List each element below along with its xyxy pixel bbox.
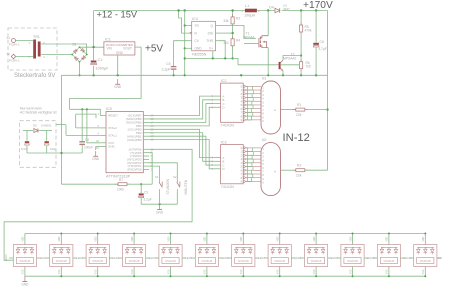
svg-text:WS2812B: WS2812B [238, 260, 249, 263]
svg-text:GND: GND [108, 145, 116, 149]
svg-text:R1: R1 [297, 103, 301, 107]
svg-text:VDD: VDD [241, 236, 243, 241]
svg-text:100k: 100k [117, 188, 124, 192]
svg-text:(RXD)PD0: (RXD)PD0 [127, 168, 141, 172]
svg-text:(AIN0)PB0: (AIN0)PB0 [127, 138, 142, 142]
svg-text:XTAL2: XTAL2 [108, 126, 117, 130]
svg-text:IC2: IC2 [221, 79, 227, 83]
svg-text:DIS: DIS [208, 32, 213, 36]
svg-text:100µ: 100µ [50, 147, 57, 151]
svg-text:VSS: VSS [23, 269, 25, 274]
svg-text:GND: GND [195, 47, 203, 51]
svg-text:VSS: VSS [132, 269, 134, 274]
svg-text:LEDS: LEDS [4, 254, 8, 261]
svg-text:VDD: VDD [59, 236, 61, 241]
svg-text:S2: S2 [173, 175, 177, 179]
svg-text:VSS: VSS [423, 269, 425, 274]
svg-text:VDD: VDD [205, 236, 207, 241]
svg-text:D5: D5 [33, 124, 37, 128]
svg-text:33k: 33k [223, 19, 229, 23]
svg-text:R2: R2 [297, 163, 301, 167]
svg-text:74141N: 74141N [221, 185, 235, 189]
svg-text:VDD: VDD [387, 236, 389, 241]
svg-text:100µH: 100µH [244, 14, 256, 18]
svg-text:WS2812B: WS2812B [20, 260, 31, 263]
svg-text:PCBV-1: PCBV-1 [9, 43, 20, 47]
svg-text:VSS: VSS [387, 269, 389, 274]
svg-text:DO: DO [438, 256, 442, 260]
svg-text:C5: C5 [166, 62, 170, 66]
svg-text:IC1: IC1 [105, 38, 111, 42]
svg-text:VSS: VSS [241, 269, 243, 274]
svg-text:A: A [274, 108, 276, 112]
svg-text:C3: C3 [144, 191, 148, 195]
svg-text:X1: X1 [6, 36, 10, 40]
svg-text:WS2812B: WS2812B [311, 260, 322, 263]
svg-text:+5V: +5V [145, 44, 163, 55]
svg-text:IC5: IC5 [106, 107, 112, 111]
svg-text:VDD: VDD [96, 236, 98, 241]
svg-text:N2: N2 [262, 138, 266, 142]
svg-text:3k3: 3k3 [223, 41, 228, 45]
svg-text:V+: V+ [209, 47, 213, 51]
svg-text:NE555N: NE555N [192, 53, 207, 57]
svg-text:C4: C4 [85, 138, 89, 142]
svg-text:74141N: 74141N [221, 124, 235, 128]
svg-text:VOUT: VOUT [123, 47, 132, 51]
svg-text:WS2812B: WS2812B [274, 260, 285, 263]
svg-text:5,6V: 5,6V [21, 147, 27, 151]
svg-text:STUNDEN: STUNDEN [166, 178, 170, 194]
svg-text:VSS: VSS [350, 269, 352, 274]
svg-text:1000µF: 1000µF [96, 67, 110, 71]
svg-text:GND: GND [156, 210, 164, 214]
svg-text:WS2812B: WS2812B [92, 260, 103, 263]
svg-text:Steckertrafo 9V: Steckertrafo 9V [14, 73, 55, 79]
svg-text:VDD: VDD [423, 236, 425, 241]
svg-text:RESET: RESET [108, 114, 118, 118]
svg-text:TR: TR [195, 24, 200, 28]
svg-text:VSS: VSS [96, 269, 98, 274]
svg-text:470k: 470k [305, 29, 312, 33]
svg-text:VDD: VDD [314, 236, 316, 241]
svg-text:+12 - 15V: +12 - 15V [97, 10, 138, 20]
svg-text:VDD: VDD [168, 236, 170, 241]
svg-text:VSS: VSS [278, 269, 280, 274]
svg-text:IC4: IC4 [192, 17, 198, 21]
svg-text:IRF644: IRF644 [243, 36, 254, 40]
svg-text:AC Netzteil verfügbar ist: AC Netzteil verfügbar ist [20, 111, 57, 115]
svg-text:4,7µF: 4,7µF [319, 47, 327, 51]
svg-text:IC3: IC3 [221, 140, 227, 144]
svg-text:VSS: VSS [314, 269, 316, 274]
svg-text:22k: 22k [296, 174, 302, 178]
svg-text:R4: R4 [236, 39, 240, 43]
svg-text:TR1: TR1 [33, 35, 40, 39]
svg-text:3,2µF: 3,2µF [144, 198, 152, 202]
svg-text:7k5: 7k5 [306, 65, 311, 69]
svg-text:VDD: VDD [278, 236, 280, 241]
svg-text:WS2812B: WS2812B [129, 260, 140, 263]
svg-text:VSS: VSS [59, 269, 61, 274]
svg-text:VSS: VSS [205, 269, 207, 274]
svg-text:GND: GND [116, 51, 124, 55]
svg-text:WS2812B: WS2812B [56, 260, 67, 263]
svg-text:L1: L1 [245, 4, 249, 8]
svg-text:C1: C1 [98, 58, 103, 62]
svg-text:B1: B1 [73, 43, 77, 47]
svg-text:WS2812B: WS2812B [420, 260, 431, 263]
svg-text:VIN: VIN [107, 47, 113, 51]
svg-text:4937: 4937 [283, 7, 290, 11]
svg-text:IN-12: IN-12 [283, 132, 310, 144]
svg-text:GND: GND [92, 157, 100, 161]
svg-text:MINUTEN: MINUTEN [184, 179, 188, 194]
svg-text:VDD: VDD [23, 236, 25, 241]
svg-text:22k: 22k [296, 113, 302, 117]
svg-text:VDD: VDD [132, 236, 134, 241]
svg-text:MPSA42: MPSA42 [283, 57, 296, 61]
svg-text:D4: D4 [269, 6, 274, 10]
svg-text:R3: R3 [236, 17, 240, 21]
svg-text:X2: X2 [6, 52, 10, 56]
svg-text:GND: GND [21, 282, 29, 286]
svg-text:WS2812B: WS2812B [165, 260, 176, 263]
svg-text:1N4001: 1N4001 [41, 124, 52, 128]
svg-text:VDD: VDD [350, 236, 352, 241]
svg-text:R7: R7 [119, 178, 123, 182]
svg-text:S1: S1 [155, 175, 159, 179]
svg-text:THR: THR [206, 39, 213, 43]
svg-text:VSS: VSS [168, 269, 170, 274]
svg-text:PCBV-1: PCBV-1 [9, 59, 20, 63]
svg-text:WS2812B: WS2812B [202, 260, 213, 263]
svg-text:GND: GND [114, 85, 122, 89]
svg-text:WS2812B: WS2812B [347, 260, 358, 263]
svg-text:XTAL1: XTAL1 [108, 134, 117, 138]
svg-text:C6: C6 [320, 40, 324, 44]
svg-text:2,2µF: 2,2µF [162, 68, 171, 72]
svg-text:WS2812B: WS2812B [384, 260, 395, 263]
svg-text:+170V: +170V [303, 0, 333, 11]
svg-text:N1: N1 [262, 77, 266, 81]
svg-text:A: A [274, 170, 276, 174]
svg-text:100nF: 100nF [84, 146, 93, 150]
